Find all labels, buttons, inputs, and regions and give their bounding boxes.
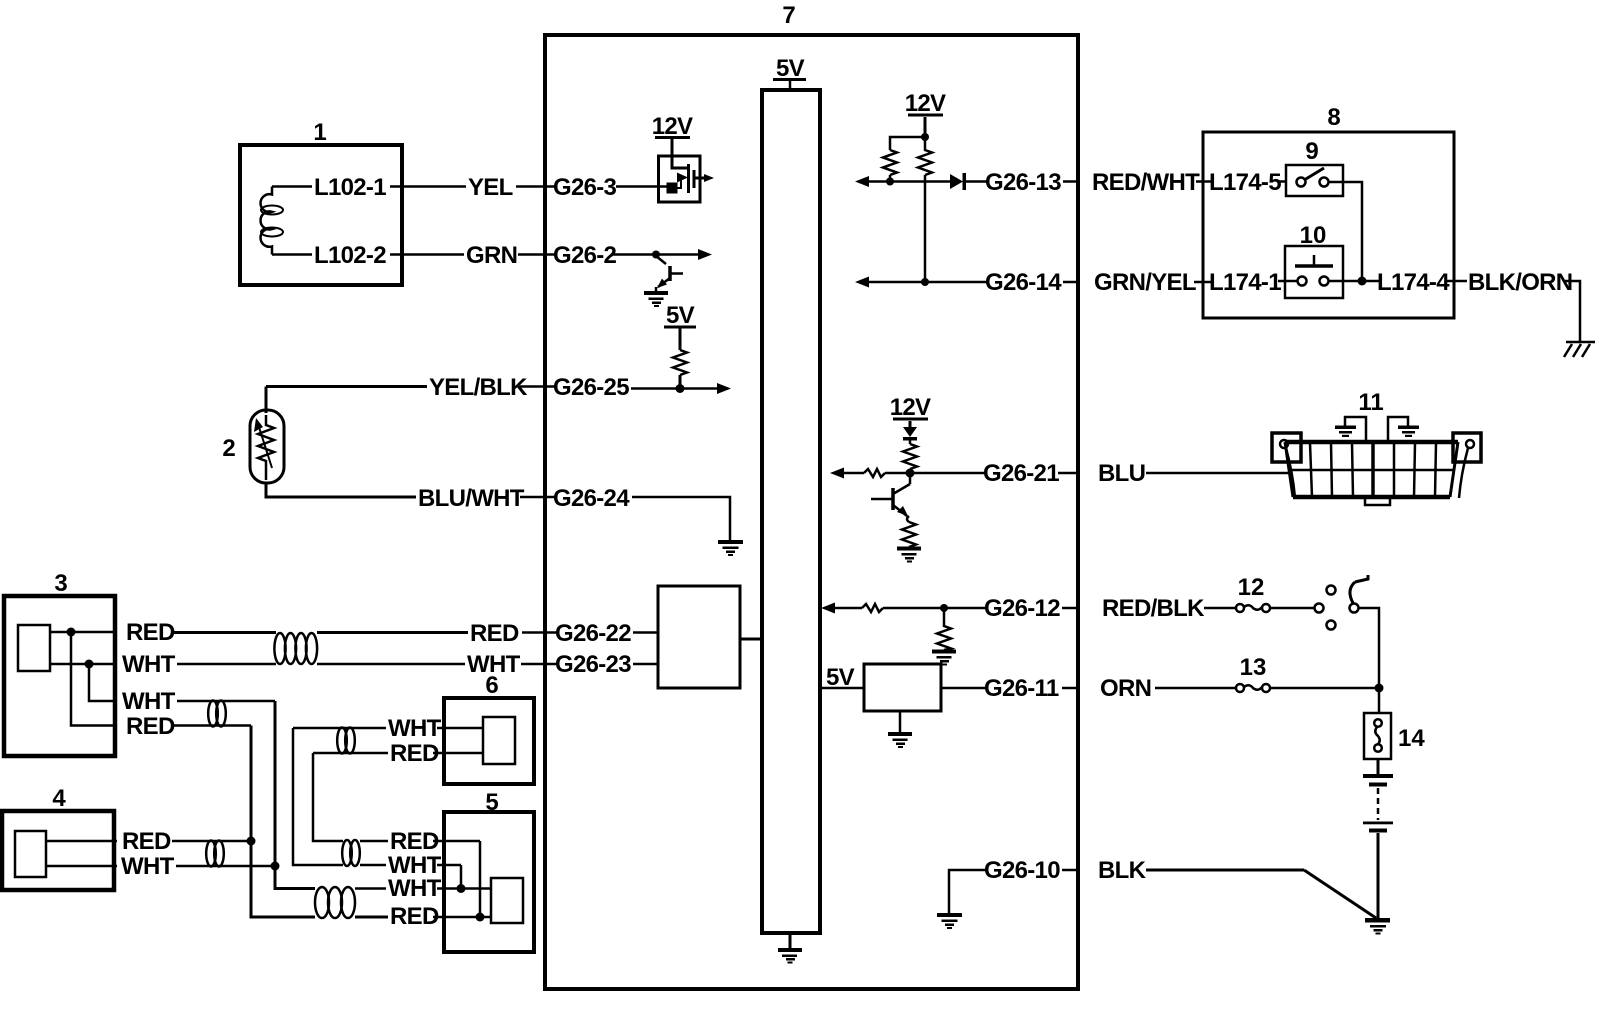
mounting ear right (connector 11) <box>1453 433 1481 498</box>
svg-text:12V: 12V <box>890 394 931 421</box>
svg-text:WHT: WHT <box>122 688 176 715</box>
svg-text:7: 7 <box>782 2 795 29</box>
svg-text:G26-10: G26-10 <box>984 857 1060 884</box>
wire G26-14 <box>867 281 988 284</box>
12V supply label (G26-21) <box>890 394 931 421</box>
svg-text:11: 11 <box>1358 389 1383 416</box>
wire BLU/WHT to G26-24 <box>520 496 556 499</box>
wire fuse 14 to battery <box>1377 759 1380 776</box>
arrow left (G26-12 into bus) <box>821 603 835 614</box>
svg-text:RED: RED <box>390 740 439 767</box>
svg-text:YEL/BLK: YEL/BLK <box>429 374 528 401</box>
12V supply label (mosfet) <box>652 113 693 140</box>
wire RED into box6 <box>433 752 483 755</box>
component box 5 <box>444 812 534 952</box>
wire 5V box to G26-11 <box>941 687 988 690</box>
node box5 WHT junction <box>457 884 466 893</box>
switch assembly box 8 <box>1203 132 1454 318</box>
twisted pair twist (box6) <box>337 728 355 754</box>
wire bus bottom tick <box>789 933 792 949</box>
control module box U7 <box>545 35 1078 989</box>
node box4 WHT joins chain <box>271 862 280 871</box>
wire WHT into box6 <box>437 727 483 730</box>
wire box3 WHT pin3 to vertical <box>177 700 275 703</box>
svg-text:G26-12: G26-12 <box>984 595 1060 622</box>
wire RED twist to label <box>360 840 388 843</box>
svg-text:GRN/YEL: GRN/YEL <box>1094 269 1196 296</box>
resistor R4 (right pull-up) <box>918 137 932 175</box>
wire 12V down to junction <box>924 117 927 137</box>
inductor L102 coil <box>261 187 272 255</box>
wire branch to left resistor <box>890 137 925 150</box>
svg-text:WHT: WHT <box>388 875 442 902</box>
wire RED/WHT to L174-5 <box>1196 180 1212 183</box>
wire box6 RED horizontal <box>313 752 388 755</box>
ground flag right (connector 11) <box>1388 417 1408 442</box>
transistor Q3 (G26-21) <box>871 473 910 522</box>
node G26-2 junction <box>652 251 660 259</box>
svg-text:BLK/ORN: BLK/ORN <box>1468 269 1572 296</box>
wire vertical RED chain <box>251 726 315 918</box>
twisted pair coil (to G26-22/23) <box>274 633 317 664</box>
inner element (box 4) <box>15 831 46 877</box>
wire box4 pin2 WHT <box>46 865 117 868</box>
mosfet Q1 (high-side driver) <box>659 156 715 202</box>
svg-text:14: 14 <box>1398 725 1425 752</box>
svg-text:RED: RED <box>126 619 175 646</box>
wire battery cell link (dashed) <box>1377 788 1380 820</box>
component box 3 <box>4 596 115 756</box>
resistor R3 (left pull-up) <box>883 150 897 175</box>
wire box5 pin2 drop <box>460 865 463 889</box>
5V supply label (G26-25 pull-up) <box>664 302 696 329</box>
svg-text:RED: RED <box>470 620 519 647</box>
svg-text:ORN: ORN <box>1100 675 1151 702</box>
arrow right (G26-2) <box>698 249 712 260</box>
wire diode to G26-13 label <box>966 180 988 183</box>
svg-text:G26-11: G26-11 <box>984 675 1059 702</box>
wire G26-21 left segment <box>842 472 864 475</box>
svg-text:G26-24: G26-24 <box>553 485 630 512</box>
wire G26-23 to amp box <box>633 663 658 666</box>
wire WHT twist to label <box>360 864 386 867</box>
arrow (sensor 2 wiper) <box>258 424 272 468</box>
svg-text:3: 3 <box>54 570 67 597</box>
wire fuse 12 to ignition switch <box>1270 607 1315 610</box>
inner element (box 3) <box>18 625 50 671</box>
resistor R1 (G26-25 pull-up) <box>673 350 687 375</box>
wire WHT into box5 pin3 <box>437 887 491 890</box>
twisted pair twist (box5 pins 1/2) <box>342 840 360 866</box>
ground (bus bottom) <box>778 948 802 964</box>
12V supply label (G26-13 pull-ups) <box>905 90 946 117</box>
component 2 (variable reluctance sensor) <box>250 410 284 483</box>
svg-text:2: 2 <box>222 435 235 462</box>
node box3 RED junction <box>67 628 76 637</box>
wire coil to L102-2 <box>272 253 312 256</box>
diode D1 (G26-13) <box>950 174 963 189</box>
twisted pair twist (box3 pins 3/4) <box>208 701 226 727</box>
resistor R2 (inside sensor 2) <box>258 415 274 480</box>
svg-text:6: 6 <box>485 672 498 699</box>
svg-text:L174-5: L174-5 <box>1209 169 1281 196</box>
node link junction <box>1358 277 1367 286</box>
node 12V junction <box>921 133 929 141</box>
5V bus bar <box>762 90 820 933</box>
resistor R7 (Q3 emitter) <box>902 522 916 547</box>
ground (5V box) <box>888 732 912 748</box>
ground flag left (connector 11) <box>1345 417 1366 442</box>
wire WHT into box5 pin2 <box>437 864 461 867</box>
svg-text:WHT: WHT <box>388 715 442 742</box>
node box5 RED junction <box>476 913 485 922</box>
svg-text:G26-23: G26-23 <box>555 651 631 678</box>
wire box6 RED elbow <box>313 753 343 841</box>
switch 9 <box>1286 165 1343 196</box>
wire bus to 5V box <box>820 687 864 690</box>
wire G26-22 to amp box <box>633 631 658 634</box>
svg-text:9: 9 <box>1305 138 1318 165</box>
wire G26-14 to box edge <box>1063 281 1078 284</box>
wire G26-12 left segment <box>833 607 862 610</box>
wire GRN to G26-2 <box>518 253 556 256</box>
svg-text:G26-3: G26-3 <box>553 174 617 201</box>
wire switch to vertical drop <box>1359 608 1380 684</box>
component box 1 (inductive sensor) <box>240 145 402 285</box>
ground (Q3 emitter) <box>897 547 921 563</box>
wire BLK diagonal to battery ground <box>1304 870 1376 918</box>
fuse 14 (fusible link) <box>1364 713 1391 759</box>
svg-text:G26-21: G26-21 <box>983 460 1059 487</box>
wire YEL/BLK to G26-25 <box>520 385 556 388</box>
resistor R9 (G26-12 pull-down) <box>937 608 951 650</box>
ground (G26-10) <box>937 913 962 929</box>
resistor R5 (G26-21 pull-up) <box>903 444 917 469</box>
svg-text:L174-1: L174-1 <box>1209 269 1281 296</box>
wire GRN/YEL to L174-1 <box>1194 281 1212 284</box>
wire box4 WHT to chain <box>176 865 275 868</box>
svg-text:13: 13 <box>1240 654 1267 681</box>
arrow left (G26-14 into bus) <box>855 277 869 288</box>
5V regulator box (G26-11) <box>864 664 941 711</box>
wire junction to fuse 14 <box>1378 688 1381 713</box>
wire RED/BLK to fuse 12 <box>1204 607 1236 610</box>
svg-text:WHT: WHT <box>122 651 176 678</box>
svg-text:L102-2: L102-2 <box>314 242 386 269</box>
wire 5V box to ground <box>899 711 902 733</box>
wire box4 RED to twist <box>172 840 251 843</box>
wire box6 WHT horizontal <box>293 727 386 730</box>
wire box3 pin1 RED <box>50 631 117 634</box>
wire battery to ground <box>1377 833 1380 919</box>
ignition switch (rotary) <box>1315 575 1369 630</box>
wire RED to G26-22 <box>522 631 558 634</box>
node R3 junction <box>886 178 894 186</box>
svg-text:BLU: BLU <box>1098 460 1145 487</box>
wire BLK horizontal <box>1146 869 1304 872</box>
ground (G26-24) <box>718 540 743 556</box>
svg-text:RED/WHT: RED/WHT <box>1092 169 1200 196</box>
wire 12V to mosfet <box>671 139 674 168</box>
wire resistor R4 down to G26-14 <box>924 175 927 282</box>
component box 6 <box>444 698 534 784</box>
wire switch 9 to vertical link <box>1329 182 1363 277</box>
wire YEL/BLK horizontal <box>266 385 427 388</box>
wire resistor R3 to G26-13 wire <box>889 175 892 182</box>
svg-text:RED/BLK: RED/BLK <box>1102 595 1205 622</box>
svg-text:5V: 5V <box>666 302 695 329</box>
node ignition/fuse junction <box>1375 684 1384 693</box>
wire L174-4 to box edge <box>1445 280 1467 283</box>
wire RED into box5 pin4 <box>433 916 491 919</box>
wire coil to L102-1 <box>272 185 312 188</box>
node box3 WHT junction <box>85 660 94 669</box>
svg-text:G26-22: G26-22 <box>555 620 631 647</box>
wire L174-5 to switch 9 <box>1278 180 1286 183</box>
svg-text:G26-13: G26-13 <box>985 169 1061 196</box>
wire G26-2 to arrow <box>612 253 700 256</box>
wire box3 RED pin4 to vertical <box>174 724 251 727</box>
wire G26-25 to arrow <box>631 387 718 390</box>
ground (R9) <box>932 650 956 666</box>
wire L102-1 to YEL <box>390 185 466 188</box>
wire box3 pin2 WHT <box>50 663 117 666</box>
wire G26-12 to box edge <box>1062 607 1078 610</box>
svg-text:RED: RED <box>122 828 171 855</box>
svg-text:RED: RED <box>390 903 439 930</box>
wire YEL/BLK drop to sensor 2 <box>265 387 268 414</box>
wire diode to resistor <box>909 440 912 444</box>
svg-text:GRN: GRN <box>466 242 517 269</box>
wire G26-12 <box>883 607 988 610</box>
resistor R8 (inline squiggle) <box>862 604 883 612</box>
wire sensor 2 to BLU/WHT <box>266 483 416 497</box>
svg-text:4: 4 <box>52 785 66 812</box>
svg-text:WHT: WHT <box>121 853 175 880</box>
wire G26-21 to box edge <box>1058 472 1078 475</box>
mounting ear left (connector 11) <box>1272 433 1301 498</box>
wire RED coil to label <box>355 916 388 919</box>
diode D2 (G26-21 clamp) <box>903 427 917 437</box>
transistor Q2 (G26-2 input) <box>656 256 683 292</box>
wire RED into box5 pin1 <box>433 840 480 843</box>
wire G26-10 to internal ground <box>949 870 988 914</box>
svg-text:BLK: BLK <box>1098 857 1147 884</box>
svg-text:L102-1: L102-1 <box>314 174 386 201</box>
ground (battery) <box>1365 918 1390 935</box>
node G26-12 junction <box>940 604 948 612</box>
resistor R6 (inline squiggle) <box>864 469 885 477</box>
wire box6 WHT elbow <box>293 728 343 865</box>
wire coil to WHT label <box>317 663 465 666</box>
inner element (box 6) <box>483 717 515 764</box>
svg-text:5V: 5V <box>776 55 805 82</box>
arrow left (G26-13 into bus) <box>855 176 869 187</box>
battery B1 <box>1363 774 1393 833</box>
svg-text:12: 12 <box>1238 574 1265 601</box>
svg-text:12V: 12V <box>652 113 693 140</box>
wire BLU to connector 11 <box>1146 472 1290 475</box>
twisted pair twist (box4) <box>206 841 224 867</box>
wire vertical WHT chain <box>275 701 315 889</box>
wire G26-24 to internal ground <box>632 497 730 541</box>
svg-text:G26-2: G26-2 <box>553 242 617 269</box>
wire 5V to resistor <box>679 328 682 350</box>
svg-text:RED: RED <box>126 713 175 740</box>
fuse 12 <box>1236 604 1270 612</box>
wire switch 10 to L174-4 <box>1329 280 1381 283</box>
wire G26-13 to box edge <box>1063 180 1078 183</box>
svg-text:RED: RED <box>390 828 439 855</box>
wire WHT coil to label <box>355 887 386 890</box>
svg-text:1: 1 <box>313 119 326 146</box>
wire amp box to bus <box>740 638 762 641</box>
node G26-25 junction <box>676 384 685 393</box>
wire box4 pin1 RED <box>46 840 117 843</box>
svg-text:G26-25: G26-25 <box>553 374 629 401</box>
wire G26-11 to box edge <box>1062 687 1078 690</box>
wire ORN to fuse 13 <box>1155 687 1236 690</box>
svg-text:L174-4: L174-4 <box>1377 269 1450 296</box>
amplifier box (G26-22/23) <box>658 586 740 688</box>
svg-text:8: 8 <box>1327 104 1340 131</box>
svg-text:BLU/WHT: BLU/WHT <box>418 485 525 512</box>
svg-text:YEL: YEL <box>468 174 513 201</box>
wire G26-21 <box>885 472 986 475</box>
wire 12V to diode <box>909 421 912 427</box>
twisted pair coil (box5 pins 3/4) <box>315 887 355 918</box>
component box 4 <box>2 811 114 890</box>
5V supply label (bus top) <box>773 55 806 82</box>
wire L174-1 to switch 10 <box>1278 280 1297 283</box>
wire fuse 13 to junction <box>1270 687 1379 690</box>
wire RED to twisted pair coil <box>174 631 276 634</box>
node G26-14 junction <box>921 278 929 286</box>
wire WHT to twisted pair coil <box>177 663 276 666</box>
connector 11 body <box>1285 442 1458 505</box>
wire box5 pin1 drop <box>479 841 482 917</box>
wire G26-10 to box edge <box>1062 869 1078 872</box>
wire box3 link RED to pin4 <box>71 632 117 726</box>
wire YEL to G26-3 <box>516 185 556 188</box>
wire bus top tick <box>789 81 792 90</box>
wire box3 link WHT to pin3 <box>89 664 117 701</box>
ground (Q2 emitter) <box>644 291 668 307</box>
chassis ground (BLK/ORN) <box>1564 342 1595 357</box>
wire coil to RED label <box>317 631 468 634</box>
switch 10 (push button) <box>1285 246 1343 298</box>
arrow left (G26-21 into bus) <box>830 468 844 479</box>
wire resistor to G26-21 node <box>909 469 912 473</box>
arrow right (G26-25) <box>717 383 731 394</box>
wire G26-3 to mosfet <box>616 185 672 188</box>
inner element (box 5) <box>491 878 523 923</box>
wire resistor to G26-25 node <box>679 375 682 389</box>
node G26-21 junction <box>906 469 915 478</box>
wire L102-2 to GRN <box>390 253 464 256</box>
svg-text:G26-14: G26-14 <box>985 269 1062 296</box>
svg-text:12V: 12V <box>905 90 946 117</box>
wire BLK/ORN to chassis ground <box>1563 281 1580 341</box>
wire WHT to G26-23 <box>521 663 558 666</box>
fuse 13 <box>1236 684 1270 692</box>
svg-text:5: 5 <box>485 789 498 816</box>
node box4 RED joins chain <box>247 837 256 846</box>
wire G26-13 <box>867 180 950 183</box>
